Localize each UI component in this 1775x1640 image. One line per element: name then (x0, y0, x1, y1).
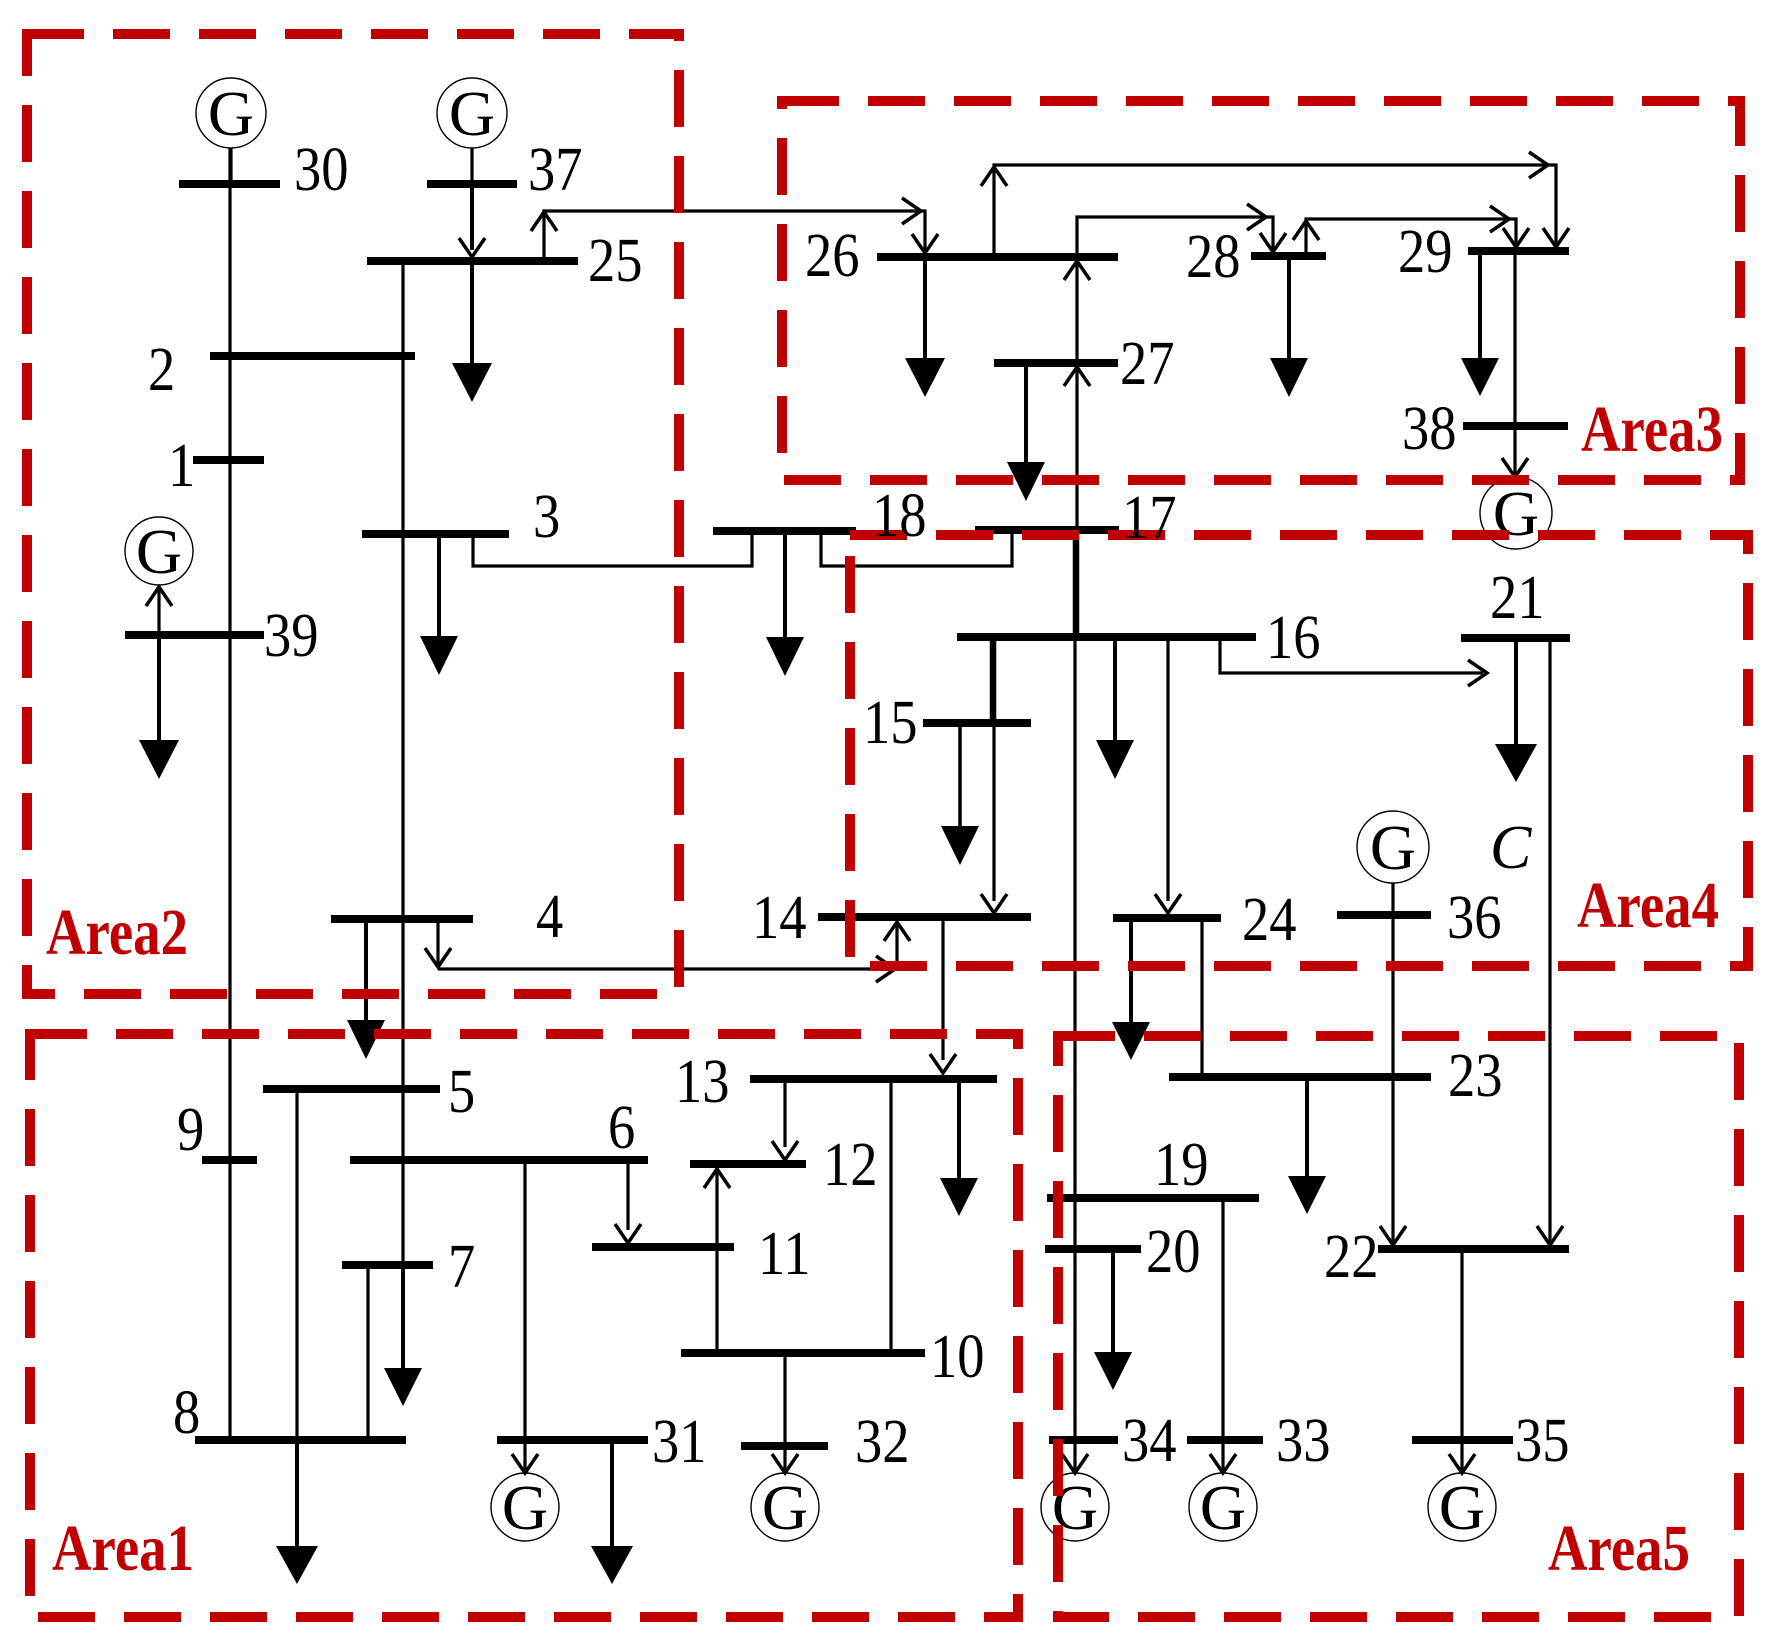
load stem bus 21 (1514, 642, 1518, 745)
bus 12 (690, 1160, 806, 1168)
bus 34 (1049, 1436, 1118, 1444)
svg-text:16: 16 (1266, 603, 1321, 672)
wire 32-G (783, 1450, 786, 1471)
svg-text:Area2: Area2 (46, 896, 188, 969)
arrowhead into G31 (512, 1454, 538, 1473)
svg-text:12: 12 (823, 1130, 878, 1199)
wire 18-17 (821, 534, 1012, 566)
wire 4-14 (438, 922, 897, 969)
wire 6-11 (626, 1164, 629, 1230)
wire 22-35 (1460, 1253, 1463, 1436)
wire 16-24 (1166, 641, 1169, 901)
bus 3 (362, 530, 509, 538)
svg-text:6: 6 (608, 1093, 635, 1162)
load stem bus 23 (1305, 1081, 1309, 1177)
bus 8 (195, 1436, 406, 1444)
bus 33 (1187, 1436, 1263, 1444)
svg-text:32: 32 (855, 1407, 910, 1476)
load stem bus 7 (401, 1269, 405, 1369)
svg-text:27: 27 (1120, 329, 1175, 398)
svg-text:36: 36 (1447, 883, 1502, 952)
svg-text:14: 14 (752, 883, 807, 952)
load stem bus 31 (610, 1444, 614, 1547)
svg-text:22: 22 (1324, 1222, 1379, 1291)
svg-text:30: 30 (294, 135, 349, 204)
arrowhead 26-29 up at 26 end (981, 167, 1007, 186)
bus 16 (957, 633, 1256, 641)
wire 25-2-3-4-5-6-7 trunk (401, 261, 404, 1265)
load arrow bus 8 (276, 1546, 318, 1584)
generator G39 (125, 517, 193, 585)
arrowhead 17-27 into 27 (1064, 367, 1090, 386)
bus 18 (713, 527, 856, 535)
bus 19 (1047, 1194, 1259, 1202)
bus 2 (210, 352, 415, 360)
bus 28 (1251, 252, 1326, 260)
svg-text:G: G (208, 78, 254, 149)
arrowhead 28-29 up at 28 end (1293, 221, 1319, 240)
arrowhead 6-11 into 11 (615, 1224, 641, 1243)
arrowhead into G35 (1449, 1454, 1475, 1473)
svg-text:21: 21 (1490, 563, 1545, 632)
load stem bus 16 (1113, 641, 1117, 741)
load stem bus 8 (295, 1444, 299, 1547)
svg-text:G: G (1370, 812, 1416, 883)
load stem bus 25 (470, 265, 474, 364)
svg-text:Area5: Area5 (1548, 1512, 1690, 1585)
bus 21 (1461, 634, 1570, 642)
bus 24 (1113, 914, 1221, 922)
arrowhead 28-29 right at corner (1490, 206, 1509, 232)
bus 9 (202, 1156, 257, 1164)
svg-text:8: 8 (173, 1378, 200, 1447)
wire G36-36 (1391, 883, 1394, 911)
wire 23-22 (1391, 1081, 1394, 1244)
bus 6 (350, 1156, 648, 1164)
bus 38 (1463, 422, 1568, 430)
wire 17-27 (1075, 367, 1078, 527)
generator G37 (437, 78, 507, 148)
load arrow bus 31 (591, 1546, 633, 1584)
wire 28-29 (1306, 219, 1516, 252)
wire 16-21 (1220, 641, 1483, 673)
bus 5 (263, 1085, 440, 1093)
wire 14-13 (941, 921, 944, 1060)
bus 20 (1045, 1245, 1141, 1253)
bus 25 (367, 257, 578, 265)
wire G37-37 (470, 148, 473, 181)
bus 22 (1378, 1245, 1569, 1253)
svg-text:3: 3 (533, 482, 560, 551)
bus 26 (877, 253, 1118, 261)
wire 26-28 (1077, 217, 1273, 253)
load stem bus 4 (364, 923, 368, 1021)
load arrow bus 26 (905, 358, 945, 397)
generator G36 (1357, 811, 1429, 883)
load stem bus 26 (923, 261, 927, 359)
svg-text:34: 34 (1122, 1406, 1177, 1475)
wire 33-G (1221, 1444, 1224, 1471)
wire 36-23 (1391, 919, 1394, 1073)
svg-text:25: 25 (588, 226, 643, 295)
svg-text:19: 19 (1154, 1130, 1209, 1199)
arrowhead 27-26 into 26 (1064, 261, 1090, 280)
load arrow bus 29 (1461, 358, 1499, 396)
load arrow bus 13 (940, 1178, 978, 1216)
bus 35 (1412, 1436, 1513, 1444)
arrowhead 14-13 into 13 (930, 1054, 956, 1073)
wire 3-18 (473, 535, 752, 566)
svg-text:G: G (136, 516, 182, 587)
svg-text:15: 15 (863, 688, 918, 757)
generator G30 (196, 78, 266, 148)
arrowhead 26-28 into 28 (1260, 233, 1286, 252)
svg-text:20: 20 (1146, 1217, 1201, 1286)
wire 23-24 (1200, 922, 1203, 1073)
bus 29 (1468, 247, 1569, 255)
arrowhead 4-14 into 14 (884, 922, 910, 941)
arrowhead into G39 (146, 587, 172, 606)
svg-text:29: 29 (1398, 217, 1453, 286)
wire 16-15 thick (990, 641, 997, 719)
arrowhead 26-29 right at corner (1529, 152, 1548, 178)
bus 39 (125, 631, 264, 639)
arrowhead 4-14 right at corner (876, 956, 895, 982)
arrowhead 25-26 up at 25 end (531, 212, 557, 231)
svg-text:18: 18 (872, 481, 927, 550)
bus 11 (592, 1243, 734, 1251)
bus 14 (818, 913, 1031, 921)
svg-text:11: 11 (758, 1219, 811, 1288)
load arrow bus 4 (347, 1020, 385, 1059)
wire 21-22 (1548, 642, 1551, 1244)
Area1 boundary (30, 1034, 1018, 1617)
svg-text:7: 7 (448, 1232, 475, 1301)
bus 7 (342, 1261, 433, 1269)
svg-text:Area4: Area4 (1577, 869, 1719, 942)
wire 26-29 (994, 165, 1556, 253)
load arrow bus 27 (1007, 462, 1045, 501)
arrowhead 16-21 toward 21 (1468, 660, 1487, 686)
Area4 boundary (850, 535, 1748, 966)
wire 10-32 (783, 1357, 786, 1442)
Area2 boundary (27, 34, 679, 994)
wire G30-30 (229, 148, 232, 181)
arrowhead 26-28 right at corner (1247, 204, 1266, 230)
generator G38 (1480, 477, 1552, 549)
bus 13 (750, 1075, 997, 1083)
arrowhead 28-29 into 29 (1503, 228, 1529, 247)
svg-text:G: G (502, 1472, 548, 1543)
load arrow bus 23 (1288, 1176, 1326, 1214)
arrowhead into G34 (1062, 1454, 1088, 1473)
arrowhead 16-24 into 24 (1155, 894, 1181, 913)
wire 5-8 (295, 1093, 298, 1436)
wire 37-25 (470, 187, 474, 250)
generator G34 (1041, 1473, 1109, 1541)
svg-text:23: 23 (1448, 1041, 1503, 1110)
svg-text:2: 2 (148, 335, 175, 404)
arrowhead 26-29 into 29 (1543, 228, 1569, 247)
arrowhead 37-25 into 25 (459, 238, 485, 257)
load stem bus 20 (1111, 1253, 1115, 1353)
svg-text:G: G (762, 1472, 808, 1543)
svg-text:33: 33 (1276, 1406, 1331, 1475)
wire 38-G (1513, 430, 1516, 475)
arrowhead 4-14 down at 4 end (425, 948, 451, 967)
arrowhead 25-26 right at corner (902, 198, 921, 224)
wire 27-26 (1075, 261, 1078, 359)
bus 1 (193, 456, 264, 464)
svg-text:Area1: Area1 (52, 1512, 194, 1585)
svg-text:G: G (1200, 1472, 1246, 1543)
wire 6-31 (523, 1164, 526, 1436)
bus 4 (331, 915, 473, 923)
arrowhead 13-12 into 12 (772, 1141, 798, 1160)
wire 13-12 (783, 1083, 786, 1147)
svg-text:39: 39 (264, 601, 319, 670)
svg-text:1: 1 (168, 431, 195, 500)
bus 36 (1337, 911, 1431, 919)
wire 34-G (1073, 1444, 1076, 1471)
Area5 boundary (1058, 1036, 1739, 1617)
svg-text:9: 9 (177, 1095, 204, 1164)
wire 39-G39 (157, 589, 160, 631)
wire 19-33 (1221, 1202, 1224, 1436)
arrowhead 21-22 into 22 (1537, 1226, 1563, 1245)
arrowhead 11-12 into 12 (704, 1169, 730, 1188)
load stem bus 15 (958, 727, 962, 827)
bus 17 (975, 526, 1119, 534)
load stem bus 29 (1478, 255, 1482, 359)
load stem bus 39 (157, 639, 161, 741)
load arrow bus 15 (941, 826, 979, 865)
arrowhead into G32 (772, 1454, 798, 1473)
bus 31 (497, 1436, 648, 1444)
bus 27 (994, 359, 1118, 367)
svg-text:Area3: Area3 (1581, 393, 1723, 466)
load arrow bus 24 (1112, 1022, 1150, 1060)
load arrow bus 7 (384, 1368, 422, 1406)
wire 15-14 (992, 727, 995, 901)
arrowhead into G33 (1210, 1454, 1236, 1473)
wire 16-19-20-34 trunk (1073, 641, 1076, 1440)
load stem bus 3 (437, 538, 441, 637)
bus 30 (179, 180, 280, 188)
load arrow bus 28 (1270, 358, 1308, 397)
svg-text:G: G (449, 78, 495, 149)
bus 23 (1169, 1073, 1431, 1081)
svg-text:5: 5 (448, 1057, 475, 1126)
load arrow bus 21 (1495, 744, 1537, 782)
arrowhead 15-14 into 14 (981, 894, 1007, 913)
arrowhead 25-26 into 26 (912, 234, 938, 253)
wire 13-10 (889, 1083, 892, 1349)
svg-text:24: 24 (1242, 885, 1297, 954)
svg-text:26: 26 (805, 221, 860, 290)
bus 32 (741, 1442, 828, 1450)
svg-text:4: 4 (536, 882, 563, 951)
wire 10-11-12 (715, 1168, 718, 1349)
arrowhead into G38 (1502, 458, 1528, 477)
generator G33 (1189, 1473, 1257, 1541)
wire 30-2-1-39-9-8 trunk (228, 148, 231, 1440)
svg-text:10: 10 (930, 1322, 985, 1391)
load stem bus 27 (1024, 367, 1028, 463)
load arrow bus 3 (420, 636, 458, 675)
wire 31-G (523, 1444, 526, 1471)
wire 25-26 (544, 211, 925, 257)
load arrow bus 18 (766, 637, 804, 676)
load stem bus 18 (783, 535, 787, 638)
load arrow bus 39 (139, 740, 179, 779)
Area3 boundary (782, 101, 1740, 480)
load stem bus 24 (1129, 922, 1133, 1023)
load stem bus 13 (957, 1083, 961, 1179)
wire 17-16 thick (1073, 534, 1080, 634)
bus 10 (681, 1349, 925, 1357)
svg-text:38: 38 (1402, 394, 1457, 463)
svg-text:C: C (1490, 814, 1532, 882)
arrowhead 23-22 into 22 (1380, 1226, 1406, 1245)
wire 35-G (1460, 1444, 1463, 1471)
wire 7-8 (366, 1269, 369, 1436)
generator G35 (1428, 1473, 1496, 1541)
generator G31 (491, 1473, 559, 1541)
svg-text:37: 37 (528, 135, 583, 204)
load arrow bus 16 (1096, 740, 1134, 779)
svg-text:17: 17 (1122, 483, 1177, 552)
svg-text:G: G (1439, 1472, 1485, 1543)
svg-text:35: 35 (1515, 1406, 1570, 1475)
bus 37 (427, 180, 517, 188)
load arrow bus 25 (452, 363, 492, 402)
generator G32 (751, 1473, 819, 1541)
svg-text:28: 28 (1186, 222, 1241, 291)
load stem bus 28 (1287, 260, 1291, 359)
svg-text:13: 13 (675, 1047, 730, 1116)
bus 15 (923, 719, 1031, 727)
load arrow bus 20 (1094, 1352, 1132, 1390)
svg-text:31: 31 (652, 1407, 707, 1476)
wire 29-38 (1513, 255, 1516, 422)
